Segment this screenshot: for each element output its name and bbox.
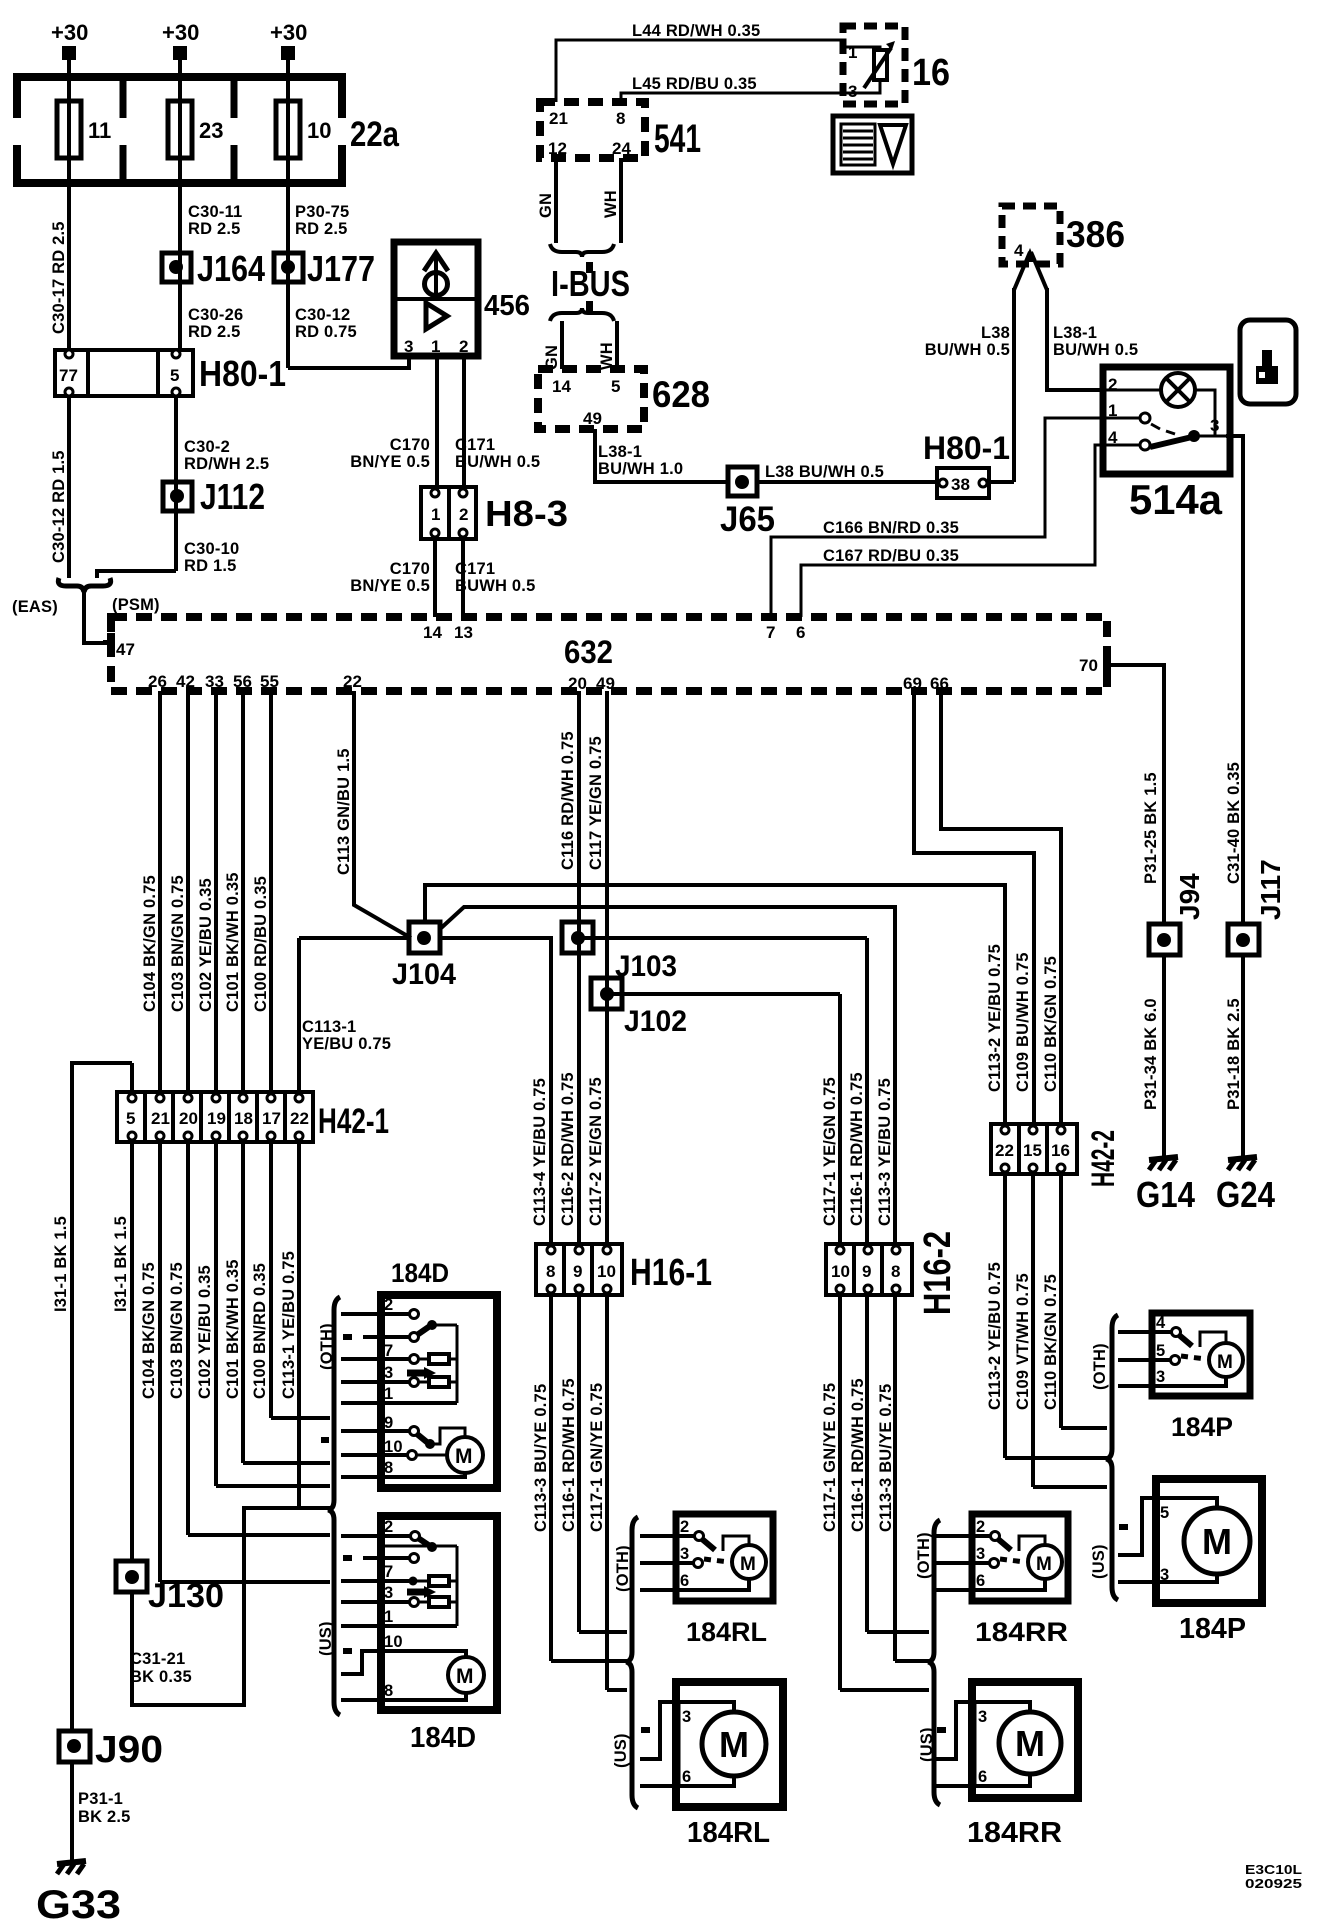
- svg-text:13: 13: [454, 623, 473, 642]
- svg-text:C110 BK/GN 0.75: C110 BK/GN 0.75: [1042, 1274, 1060, 1410]
- svg-text:33: 33: [205, 672, 224, 691]
- svg-text:5: 5: [1160, 1504, 1169, 1522]
- svg-text:C116-1 RD/WH 0.75: C116-1 RD/WH 0.75: [849, 1378, 867, 1532]
- svg-text:H16-2: H16-2: [917, 1231, 959, 1315]
- svg-text:184RL: 184RL: [686, 1617, 767, 1647]
- svg-text:14: 14: [423, 623, 442, 642]
- svg-text:C30-2: C30-2: [184, 438, 230, 456]
- svg-text:2: 2: [459, 505, 468, 524]
- svg-text:020925: 020925: [1245, 1876, 1302, 1891]
- svg-text:L38-1: L38-1: [1053, 324, 1097, 342]
- svg-text:2: 2: [384, 1296, 393, 1314]
- svg-text:15: 15: [1023, 1141, 1042, 1160]
- svg-text:YE/BU 0.75: YE/BU 0.75: [302, 1035, 391, 1053]
- svg-text:BU/WH 0.5: BU/WH 0.5: [455, 453, 540, 471]
- svg-text:1: 1: [431, 337, 440, 356]
- svg-text:C170: C170: [390, 436, 430, 454]
- svg-text:55: 55: [260, 672, 279, 691]
- svg-text:22a: 22a: [350, 115, 399, 154]
- svg-text:H16-1: H16-1: [630, 1252, 712, 1294]
- svg-text:C30-26: C30-26: [188, 306, 243, 324]
- svg-text:56: 56: [233, 672, 252, 691]
- svg-text:6: 6: [796, 623, 805, 642]
- svg-text:16: 16: [1051, 1141, 1070, 1160]
- svg-text:5: 5: [611, 377, 620, 396]
- svg-text:1: 1: [431, 505, 440, 524]
- svg-text:M: M: [719, 1724, 749, 1765]
- svg-text:8: 8: [384, 1682, 393, 1700]
- svg-text:12: 12: [548, 139, 567, 158]
- svg-text:8: 8: [891, 1262, 900, 1281]
- svg-text:77: 77: [59, 366, 78, 385]
- svg-text:184RR: 184RR: [975, 1617, 1068, 1647]
- svg-text:C113-4 YE/BU 0.75: C113-4 YE/BU 0.75: [531, 1078, 549, 1226]
- svg-text:C31-40 BK 0.35: C31-40 BK 0.35: [1225, 762, 1243, 884]
- svg-text:(US): (US): [918, 1727, 936, 1762]
- svg-text:5: 5: [126, 1109, 135, 1128]
- svg-text:(EAS): (EAS): [12, 598, 58, 616]
- svg-text:C170: C170: [390, 560, 430, 578]
- svg-text:66: 66: [930, 674, 949, 693]
- svg-text:184P: 184P: [1171, 1412, 1233, 1442]
- svg-text:BUWH 0.5: BUWH 0.5: [455, 577, 535, 595]
- svg-text:10: 10: [831, 1262, 850, 1281]
- svg-text:C100 BN/RD 0.35: C100 BN/RD 0.35: [251, 1263, 269, 1399]
- svg-text:2: 2: [459, 337, 468, 356]
- svg-text:22: 22: [995, 1141, 1014, 1160]
- svg-text:23: 23: [199, 118, 223, 143]
- svg-text:J104: J104: [392, 958, 456, 991]
- svg-text:RD 2.5: RD 2.5: [188, 220, 241, 238]
- svg-text:2: 2: [680, 1518, 689, 1536]
- svg-text:184D: 184D: [391, 1258, 449, 1288]
- svg-text:C103 BN/GN 0.75: C103 BN/GN 0.75: [169, 875, 187, 1012]
- svg-text:C109 VT/WH 0.75: C109 VT/WH 0.75: [1014, 1273, 1032, 1410]
- svg-text:(OTH): (OTH): [318, 1323, 336, 1370]
- svg-text:P31-1: P31-1: [78, 1790, 123, 1808]
- svg-text:3: 3: [978, 1708, 987, 1726]
- svg-text:H80-1: H80-1: [923, 430, 1010, 466]
- svg-text:C116-1 RD/WH 0.75: C116-1 RD/WH 0.75: [848, 1072, 866, 1226]
- svg-text:6: 6: [976, 1572, 985, 1590]
- svg-text:G33: G33: [36, 1883, 121, 1927]
- svg-text:70: 70: [1079, 656, 1098, 675]
- svg-text:+30: +30: [162, 20, 199, 45]
- svg-text:3: 3: [384, 1584, 393, 1602]
- svg-text:BN/YE 0.5: BN/YE 0.5: [350, 453, 430, 471]
- svg-text:H42-1: H42-1: [318, 1102, 389, 1141]
- svg-text:4: 4: [1156, 1314, 1166, 1332]
- svg-text:BU/WH 0.5: BU/WH 0.5: [1053, 341, 1138, 359]
- svg-text:9: 9: [384, 1414, 393, 1432]
- svg-text:G24: G24: [1216, 1174, 1275, 1215]
- svg-text:C171: C171: [455, 436, 495, 454]
- svg-text:10: 10: [307, 118, 331, 143]
- svg-text:C104 BK/GN 0.75: C104 BK/GN 0.75: [140, 1262, 158, 1399]
- svg-text:P31-18 BK 2.5: P31-18 BK 2.5: [1225, 998, 1243, 1110]
- svg-text:C113-1 YE/BU 0.75: C113-1 YE/BU 0.75: [280, 1251, 298, 1399]
- svg-text:M: M: [740, 1554, 756, 1575]
- svg-text:RD 2.5: RD 2.5: [295, 220, 348, 238]
- svg-text:P31-34 BK 6.0: P31-34 BK 6.0: [1142, 998, 1160, 1110]
- svg-text:69: 69: [903, 674, 922, 693]
- svg-text:8: 8: [616, 109, 625, 128]
- svg-text:M: M: [1015, 1723, 1045, 1764]
- svg-text:C117 YE/GN 0.75: C117 YE/GN 0.75: [587, 736, 605, 870]
- svg-text:BU/WH 0.5: BU/WH 0.5: [925, 341, 1010, 359]
- svg-text:C116 RD/WH 0.75: C116 RD/WH 0.75: [559, 731, 577, 870]
- svg-text:11: 11: [88, 118, 111, 143]
- svg-text:7: 7: [384, 1563, 393, 1581]
- svg-text:5: 5: [1156, 1342, 1165, 1360]
- svg-text:L45 RD/BU 0.35: L45 RD/BU 0.35: [632, 75, 757, 93]
- svg-text:47: 47: [116, 640, 135, 659]
- svg-text:19: 19: [207, 1109, 226, 1128]
- svg-text:(US): (US): [1090, 1544, 1108, 1579]
- svg-text:26: 26: [148, 672, 167, 691]
- svg-text:C100 RD/BU 0.35: C100 RD/BU 0.35: [252, 876, 270, 1012]
- svg-text:20: 20: [179, 1109, 198, 1128]
- svg-text:6: 6: [978, 1768, 987, 1786]
- svg-text:J112: J112: [200, 476, 265, 517]
- svg-text:10: 10: [384, 1438, 403, 1456]
- svg-text:4: 4: [1014, 241, 1024, 260]
- svg-text:C31-21: C31-21: [130, 1650, 185, 1668]
- svg-text:E3C10L: E3C10L: [1245, 1862, 1302, 1877]
- svg-text:386: 386: [1066, 214, 1125, 255]
- svg-text:3: 3: [682, 1708, 691, 1726]
- svg-text:(OTH): (OTH): [1091, 1343, 1109, 1390]
- svg-text:L38 BU/WH 0.5: L38 BU/WH 0.5: [765, 463, 884, 481]
- svg-text:C110 BK/GN 0.75: C110 BK/GN 0.75: [1042, 956, 1060, 1092]
- svg-text:456: 456: [484, 290, 530, 322]
- svg-text:8: 8: [546, 1262, 555, 1281]
- svg-text:+30: +30: [270, 20, 307, 45]
- svg-text:M: M: [1202, 1521, 1232, 1562]
- svg-text:P31-25 BK 1.5: P31-25 BK 1.5: [1142, 772, 1160, 884]
- svg-text:2: 2: [976, 1518, 985, 1536]
- svg-text:22: 22: [343, 672, 362, 691]
- svg-text:632: 632: [564, 634, 613, 670]
- svg-text:3: 3: [1160, 1566, 1169, 1584]
- svg-text:C113-1: C113-1: [302, 1018, 356, 1036]
- svg-text:C102 YE/BU 0.35: C102 YE/BU 0.35: [196, 1265, 214, 1399]
- svg-text:WH: WH: [602, 190, 620, 218]
- svg-text:M: M: [1217, 1352, 1233, 1373]
- svg-text:C101 BK/WH 0.35: C101 BK/WH 0.35: [224, 872, 242, 1012]
- svg-text:M: M: [455, 1445, 473, 1468]
- svg-text:C113-2 YE/BU 0.75: C113-2 YE/BU 0.75: [986, 944, 1004, 1092]
- svg-text:184RL: 184RL: [687, 1817, 770, 1849]
- svg-text:18: 18: [234, 1109, 253, 1128]
- svg-text:J65: J65: [720, 500, 775, 539]
- svg-text:C117-1 GN/YE 0.75: C117-1 GN/YE 0.75: [821, 1383, 839, 1532]
- svg-text:9: 9: [573, 1262, 582, 1281]
- svg-text:14: 14: [552, 377, 571, 396]
- svg-text:6: 6: [680, 1572, 689, 1590]
- svg-text:L44 RD/WH 0.35: L44 RD/WH 0.35: [632, 22, 760, 40]
- svg-text:9: 9: [862, 1262, 871, 1281]
- svg-text:628: 628: [652, 374, 710, 415]
- svg-text:BU/WH 1.0: BU/WH 1.0: [598, 460, 683, 478]
- svg-text:10: 10: [597, 1262, 616, 1281]
- svg-text:H8-3: H8-3: [485, 493, 568, 534]
- svg-text:C30-12: C30-12: [295, 306, 350, 324]
- svg-text:H42-2: H42-2: [1085, 1130, 1121, 1187]
- svg-text:C117-2 YE/GN 0.75: C117-2 YE/GN 0.75: [587, 1077, 605, 1226]
- svg-text:1: 1: [384, 1608, 393, 1626]
- svg-text:38: 38: [951, 475, 970, 494]
- svg-text:C109 BU/WH 0.75: C109 BU/WH 0.75: [1014, 952, 1032, 1092]
- svg-text:3: 3: [680, 1545, 689, 1563]
- svg-text:RD 0.75: RD 0.75: [295, 323, 357, 341]
- svg-text:C102 YE/BU 0.35: C102 YE/BU 0.35: [197, 878, 215, 1012]
- svg-text:G14: G14: [1136, 1174, 1195, 1215]
- svg-text:541: 541: [654, 117, 701, 161]
- svg-text:+30: +30: [51, 20, 88, 45]
- svg-text:21: 21: [549, 109, 568, 128]
- svg-text:C103 BN/GN 0.75: C103 BN/GN 0.75: [168, 1262, 186, 1399]
- svg-text:2: 2: [384, 1518, 393, 1536]
- svg-text:M: M: [1036, 1554, 1052, 1575]
- svg-text:C30-11: C30-11: [188, 203, 242, 221]
- svg-text:6: 6: [682, 1768, 691, 1786]
- svg-text:I31-1 BK 1.5: I31-1 BK 1.5: [112, 1216, 130, 1312]
- svg-text:C113-2 YE/BU 0.75: C113-2 YE/BU 0.75: [986, 1262, 1004, 1410]
- svg-text:24: 24: [612, 139, 631, 158]
- svg-text:22: 22: [290, 1109, 309, 1128]
- svg-text:514a: 514a: [1129, 476, 1223, 523]
- svg-text:49: 49: [583, 409, 602, 428]
- svg-text:C166 BN/RD 0.35: C166 BN/RD 0.35: [823, 519, 959, 537]
- svg-text:RD 1.5: RD 1.5: [184, 557, 237, 575]
- svg-text:M: M: [456, 1665, 474, 1688]
- svg-text:J164: J164: [197, 248, 265, 289]
- svg-text:L38-1: L38-1: [598, 443, 642, 461]
- svg-text:I-BUS: I-BUS: [551, 263, 630, 304]
- svg-text:8: 8: [384, 1459, 393, 1477]
- svg-text:184D: 184D: [410, 1722, 476, 1754]
- svg-text:BK 2.5: BK 2.5: [78, 1808, 131, 1826]
- svg-text:5: 5: [170, 366, 179, 385]
- svg-text:17: 17: [262, 1109, 281, 1128]
- svg-text:(OTH): (OTH): [614, 1545, 632, 1592]
- svg-text:21: 21: [151, 1109, 170, 1128]
- svg-text:C30-12 RD 1.5: C30-12 RD 1.5: [50, 450, 68, 563]
- svg-text:3: 3: [976, 1545, 985, 1563]
- svg-text:L38: L38: [981, 324, 1010, 342]
- svg-text:C171: C171: [455, 560, 495, 578]
- svg-text:10: 10: [384, 1633, 403, 1651]
- svg-text:3: 3: [404, 337, 413, 356]
- svg-text:(US): (US): [317, 1621, 335, 1656]
- svg-text:J130: J130: [148, 1577, 224, 1615]
- svg-text:J94: J94: [1174, 873, 1205, 920]
- svg-text:C113-3 BU/YE 0.75: C113-3 BU/YE 0.75: [877, 1384, 895, 1532]
- svg-text:3: 3: [384, 1364, 393, 1382]
- svg-text:RD/WH 2.5: RD/WH 2.5: [184, 455, 269, 473]
- svg-text:C113 GN/BU 1.5: C113 GN/BU 1.5: [335, 748, 353, 875]
- svg-text:J177: J177: [307, 248, 375, 289]
- svg-text:184P: 184P: [1179, 1613, 1246, 1645]
- svg-text:J117: J117: [1255, 859, 1286, 920]
- svg-text:C30-17 RD 2.5: C30-17 RD 2.5: [50, 221, 68, 334]
- svg-text:7: 7: [766, 623, 775, 642]
- svg-text:(PSM): (PSM): [112, 596, 160, 614]
- svg-text:RD 2.5: RD 2.5: [188, 323, 241, 341]
- svg-text:C116-1 RD/WH 0.75: C116-1 RD/WH 0.75: [560, 1378, 578, 1532]
- svg-text:49: 49: [596, 674, 615, 693]
- svg-text:(US): (US): [612, 1733, 630, 1768]
- svg-text:20: 20: [568, 674, 587, 693]
- svg-text:P30-75: P30-75: [295, 203, 349, 221]
- svg-text:C116-2 RD/WH 0.75: C116-2 RD/WH 0.75: [559, 1072, 577, 1226]
- svg-text:42: 42: [176, 672, 195, 691]
- svg-text:(OTH): (OTH): [915, 1532, 933, 1579]
- svg-text:3: 3: [1156, 1368, 1165, 1386]
- svg-text:H80-1: H80-1: [199, 353, 286, 394]
- svg-text:1: 1: [384, 1385, 393, 1403]
- svg-text:J102: J102: [624, 1005, 687, 1038]
- svg-text:C117-1 YE/GN 0.75: C117-1 YE/GN 0.75: [821, 1077, 839, 1226]
- svg-text:I31-1 BK 1.5: I31-1 BK 1.5: [52, 1216, 70, 1312]
- svg-text:16: 16: [912, 52, 950, 94]
- svg-text:C113-3 BU/YE 0.75: C113-3 BU/YE 0.75: [532, 1384, 550, 1532]
- svg-text:BK 0.35: BK 0.35: [130, 1668, 192, 1686]
- svg-text:GN: GN: [537, 193, 555, 218]
- svg-text:C117-1 GN/YE 0.75: C117-1 GN/YE 0.75: [588, 1383, 606, 1532]
- svg-text:C167 RD/BU 0.35: C167 RD/BU 0.35: [823, 547, 959, 565]
- svg-text:BN/YE 0.5: BN/YE 0.5: [350, 577, 430, 595]
- svg-text:7: 7: [384, 1342, 393, 1360]
- svg-text:C101 BK/WH 0.35: C101 BK/WH 0.35: [224, 1259, 242, 1399]
- svg-text:C113-3 YE/BU 0.75: C113-3 YE/BU 0.75: [876, 1078, 894, 1226]
- svg-text:184RR: 184RR: [967, 1817, 1062, 1849]
- svg-text:C104 BK/GN 0.75: C104 BK/GN 0.75: [141, 875, 159, 1012]
- svg-text:C30-10: C30-10: [184, 540, 239, 558]
- svg-text:J90: J90: [95, 1729, 163, 1771]
